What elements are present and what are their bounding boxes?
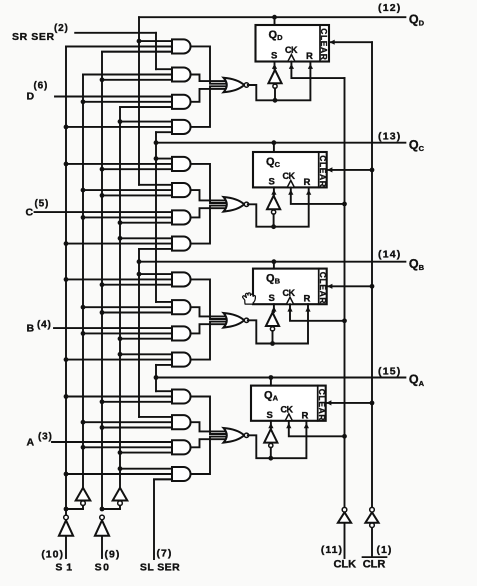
svg-text:(10): (10) [41,549,64,561]
svg-text:(12): (12) [378,2,401,14]
svg-text:(4): (4) [37,320,52,331]
svg-text:CK: CK [283,171,296,181]
svg-text:S: S [269,293,275,304]
svg-text:S: S [267,410,273,421]
svg-text:(13): (13) [378,130,401,142]
svg-text:QA: QA [409,373,425,388]
svg-text:R: R [304,294,311,305]
svg-text:(2): (2) [54,23,69,34]
svg-text:S 1: S 1 [55,562,72,574]
svg-text:(14): (14) [378,249,401,261]
svg-text:CLR: CLR [363,559,386,571]
svg-text:SR SER: SR SER [12,31,55,43]
svg-text:R: R [302,410,309,421]
svg-text:A: A [27,437,35,449]
svg-text:R: R [304,177,311,188]
svg-text:CK: CK [281,405,294,415]
svg-text:(3): (3) [38,432,53,443]
svg-text:(9): (9) [105,549,121,561]
svg-text:SL SER: SL SER [140,562,180,574]
svg-text:CLEAR: CLEAR [319,28,329,60]
svg-text:CK: CK [283,288,296,298]
svg-text:CLK: CLK [333,559,356,571]
svg-text:(6): (6) [34,81,49,92]
svg-text:S: S [269,176,275,187]
svg-text:C: C [26,207,34,219]
svg-text:S0: S0 [95,562,111,574]
svg-text:(15): (15) [378,366,401,378]
svg-text:QB: QB [409,257,425,272]
svg-text:CLEAR: CLEAR [318,155,328,187]
svg-text:QC: QC [409,138,425,153]
svg-text:R: R [306,51,313,62]
svg-text:(11): (11) [321,544,343,556]
svg-text:QD: QD [409,12,425,27]
svg-text:B: B [27,323,35,335]
svg-text:S: S [271,51,277,62]
svg-text:CLEAR: CLEAR [317,389,327,421]
svg-text:(7): (7) [157,548,173,560]
svg-text:(1): (1) [377,544,393,556]
svg-text:CLEAR: CLEAR [318,272,328,304]
svg-text:D: D [27,91,35,103]
svg-text:(5): (5) [35,199,50,210]
